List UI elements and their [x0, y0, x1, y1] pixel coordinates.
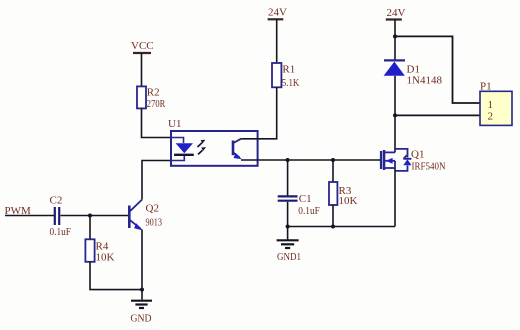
label U1 [168, 118, 181, 130]
svg-text:24V: 24V [268, 7, 287, 19]
label R1 [282, 64, 295, 76]
capacitor C2 [55, 207, 59, 225]
label GND1 [277, 251, 301, 263]
svg-text:1N4148: 1N4148 [407, 74, 443, 86]
wire R3 to bottom rail [332, 205, 334, 227]
wire C1 to bottom rail [287, 202, 289, 227]
wire 24V down to D1 [394, 20, 396, 60]
transistor Q2 [129, 200, 143, 231]
junction 24V / P1 pin1 branch [393, 34, 397, 38]
net label PWM [5, 205, 32, 217]
label C1 [299, 193, 312, 205]
resistor R1 [272, 63, 281, 87]
svg-text:P1: P1 [480, 81, 492, 93]
svg-text:10K: 10K [339, 195, 358, 207]
label GND [131, 313, 152, 325]
svg-text:C2: C2 [50, 195, 63, 207]
svg-text:GND1: GND1 [277, 251, 301, 263]
junction rail / R3 [331, 158, 335, 162]
optocoupler U1 [171, 131, 258, 166]
wire GND1 drop [287, 227, 289, 240]
value 10K (R4) [96, 252, 115, 264]
wire VCC to R2 [141, 53, 143, 86]
wire Q2 collector to U1 LED cathode [142, 161, 171, 200]
wire to P1 pin 2 [395, 114, 480, 116]
junction rail / C1 [286, 158, 290, 162]
label R3 [339, 185, 352, 197]
label R4 [96, 241, 109, 253]
wire Q2 emitter to GND [141, 230, 143, 300]
svg-text:10K: 10K [96, 252, 115, 264]
wire to P1 pin 1 [395, 36, 480, 103]
wire D1 to Q1 drain [394, 76, 396, 153]
connector P1 [480, 91, 512, 125]
power 24V (right) [386, 7, 406, 20]
value IRF540N (Q1) [412, 161, 446, 173]
label R2 [147, 86, 160, 98]
svg-text:0.1uF: 0.1uF [50, 226, 72, 238]
power 24V (left) [268, 7, 287, 20]
resistor R2 [137, 86, 146, 108]
label C2 [50, 195, 63, 207]
junction D1 / P1 pin2 branch [393, 113, 397, 117]
value 0.1uF (C2) [50, 226, 72, 238]
svg-text:Q2: Q2 [146, 203, 159, 215]
svg-text:1: 1 [488, 99, 494, 111]
junction node A [88, 214, 92, 218]
transistor Q1 (MOSFET) [381, 149, 412, 171]
diode D1 [384, 60, 405, 75]
junction bottom rail / R3 [331, 225, 335, 229]
wire main rail (U1 emitter to Q1 gate) [241, 159, 381, 161]
junction bottom rail / C1 [286, 225, 290, 229]
svg-text:R1: R1 [282, 64, 295, 76]
wire C2 to Q2 base [61, 215, 129, 217]
power VCC [131, 40, 154, 53]
value 270R (R2) [147, 98, 166, 110]
capacitor C1 [278, 196, 298, 200]
ground GND [131, 301, 152, 308]
svg-text:270R: 270R [147, 98, 166, 110]
svg-text:2: 2 [488, 111, 494, 123]
label Q1 [411, 149, 424, 161]
svg-text:Q1: Q1 [411, 149, 424, 161]
wire rail to R3 [332, 160, 334, 182]
svg-text:R2: R2 [147, 86, 160, 98]
wire R2 to U1 LED anode [142, 108, 172, 137]
svg-text:VCC: VCC [131, 40, 154, 52]
value 5.1K (R1) [282, 77, 300, 89]
wire PWM to C2 [5, 215, 54, 217]
resistor R4 [85, 239, 94, 261]
svg-text:24V: 24V [387, 7, 406, 19]
value 10K (R3) [339, 195, 358, 207]
svg-text:9013: 9013 [146, 217, 163, 229]
ground GND1 [277, 240, 299, 248]
wire R4 to emitter rail [90, 262, 142, 290]
svg-text:GND: GND [131, 313, 152, 325]
label P1 [480, 81, 492, 93]
junction Q2 emitter / R4 [140, 288, 144, 292]
wire 24V to R1 [276, 19, 278, 63]
wire bottom rail [288, 226, 395, 228]
svg-text:5.1K: 5.1K [282, 77, 300, 89]
svg-text:IRF540N: IRF540N [412, 161, 446, 173]
svg-text:U1: U1 [168, 118, 181, 130]
wire Q1 source to bottom rail [394, 168, 396, 227]
value 0.1uF (C1) [298, 205, 320, 217]
label D1 [407, 64, 420, 76]
label Q2 [146, 203, 159, 215]
resistor R3 [329, 182, 337, 205]
wire rail to C1 [287, 160, 289, 196]
wire R1 to U1 collector [241, 87, 276, 138]
wire node A to R4 [89, 216, 91, 240]
svg-text:C1: C1 [299, 193, 312, 205]
svg-text:0.1uF: 0.1uF [298, 205, 320, 217]
value 9013 (Q2) [146, 217, 163, 229]
value 1N4148 (D1) [407, 74, 443, 86]
